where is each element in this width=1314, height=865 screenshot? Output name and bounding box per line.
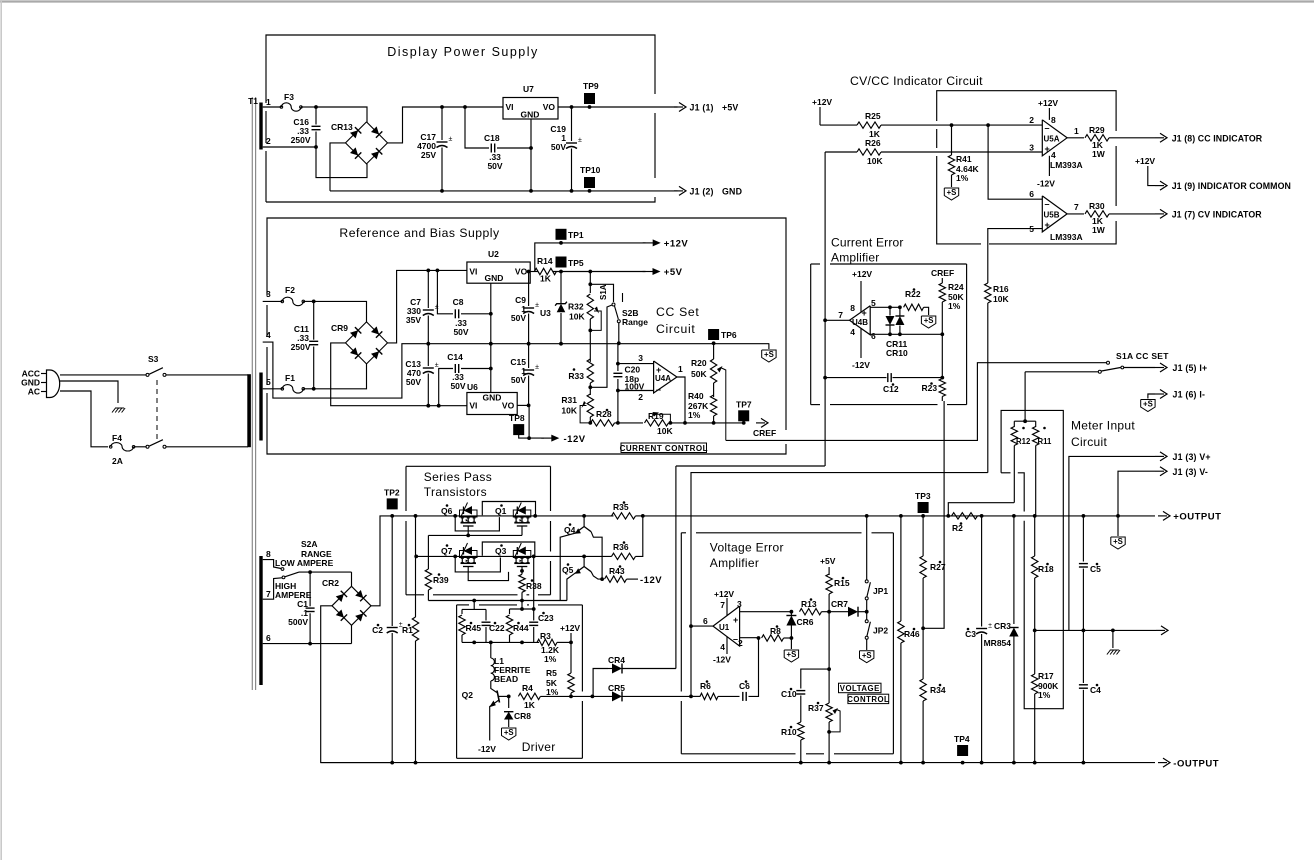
svg-text:R30: R30	[1089, 201, 1105, 211]
svg-text:R8: R8	[770, 626, 781, 636]
+OUTPUT arrow	[1158, 515, 1167, 517]
svg-text:R37: R37	[808, 703, 824, 713]
svg-text:+12V: +12V	[812, 97, 832, 107]
arrow +12V	[653, 239, 661, 246]
svg-text:R41: R41	[956, 154, 972, 164]
svg-text:Range: Range	[622, 317, 648, 327]
J1 (9) arrow	[1155, 185, 1164, 187]
svg-text:2: 2	[738, 638, 743, 648]
label CURRENT CONTROL	[621, 443, 707, 453]
svg-text:R29: R29	[1089, 125, 1105, 135]
svg-text:-OUTPUT: -OUTPUT	[1173, 758, 1219, 769]
svg-text:S3: S3	[148, 354, 159, 364]
DC+ rail display supply	[442, 106, 503, 108]
switch S1A branch	[590, 284, 613, 302]
svg-text:J1 (7) CV INDICATOR: J1 (7) CV INDICATOR	[1172, 210, 1263, 220]
wire S1A to divider	[1024, 372, 1026, 421]
capacitor C17	[440, 105, 444, 109]
svg-text:-12V: -12V	[478, 744, 496, 754]
switch S2A arm	[285, 572, 299, 577]
svg-text:-12V: -12V	[713, 655, 731, 665]
wire GND drop	[60, 381, 118, 403]
transformer T1 core	[251, 97, 253, 690]
svg-text:C14: C14	[447, 352, 463, 362]
svg-text:50V: 50V	[406, 377, 421, 387]
R2 bypass wire to meter divider	[948, 503, 1014, 516]
CV sense wire to comparator	[923, 401, 944, 628]
svg-text:250V: 250V	[291, 342, 311, 352]
test point TP10	[584, 177, 595, 188]
svg-text:R5: R5	[546, 668, 557, 678]
+S flag on V- node	[1117, 516, 1119, 536]
capacitor C9	[527, 270, 531, 274]
test point TP9	[584, 93, 595, 104]
svg-text:CR9: CR9	[331, 323, 348, 333]
resistor R45 capacitor C22 pair	[462, 608, 486, 610]
capacitor C10 branch	[801, 669, 829, 688]
svg-text:Meter Input: Meter Input	[1071, 419, 1135, 433]
svg-text:50V: 50V	[453, 327, 468, 337]
wire F3 to node	[301, 106, 316, 108]
svg-text:R33: R33	[568, 371, 584, 381]
diode CR6	[790, 612, 792, 615]
wire pin5 to bridge CR9 bottom	[314, 364, 367, 389]
wire CR2 left to -OUTPUT rail	[321, 606, 393, 763]
svg-text:+5V: +5V	[722, 103, 739, 113]
svg-text:S2A: S2A	[301, 539, 318, 549]
gate loop Q7 lower	[455, 556, 500, 572]
svg-text:10K: 10K	[569, 312, 585, 322]
svg-text:J1 (3) V-: J1 (3) V-	[1173, 467, 1209, 477]
+S flag R41	[944, 188, 958, 200]
op-amp U1	[713, 606, 740, 646]
svg-text:+S: +S	[504, 728, 514, 737]
jumper JP2	[866, 612, 868, 620]
section box Display Power Supply	[265, 151, 267, 202]
svg-text:R18: R18	[1038, 564, 1054, 574]
svg-text:3: 3	[1029, 143, 1034, 153]
DC- rail display supply	[330, 190, 678, 192]
resistor R29	[1067, 137, 1084, 139]
svg-text:C8: C8	[453, 297, 464, 307]
svg-text:500V: 500V	[288, 617, 308, 627]
wire common to CR2 top	[351, 572, 353, 586]
resistor R2	[946, 514, 950, 518]
svg-text:8: 8	[1051, 115, 1056, 125]
svg-text:R24: R24	[948, 282, 964, 292]
svg-text:7: 7	[720, 600, 725, 610]
svg-text:50V: 50V	[487, 161, 502, 171]
svg-text:TP9: TP9	[583, 81, 599, 91]
svg-text:7: 7	[838, 310, 843, 320]
J1 (8) arrow	[1155, 137, 1164, 139]
svg-text:VI: VI	[469, 267, 477, 277]
wire bridge left to DC- rail	[330, 143, 346, 191]
svg-text:LM393A: LM393A	[1050, 160, 1083, 170]
AC plug P1	[47, 370, 60, 398]
svg-text:+12V: +12V	[714, 589, 734, 599]
test point TP3	[918, 502, 929, 513]
output arrow J1 (1) +5V	[674, 106, 683, 108]
svg-text:R46: R46	[904, 629, 920, 639]
wire CR9 right to +raw line	[388, 270, 467, 343]
svg-text:BEAD: BEAD	[494, 674, 518, 684]
svg-text:7: 7	[266, 589, 271, 599]
resistor R39	[427, 535, 429, 569]
svg-text:+S: +S	[1143, 400, 1153, 409]
svg-text:R31: R31	[561, 395, 577, 405]
wire U6 GND to bus	[490, 344, 492, 369]
svg-text:C10: C10	[781, 689, 797, 699]
diode CR4 branch	[592, 669, 608, 697]
svg-text:+S: +S	[947, 188, 957, 197]
svg-text:Circuit: Circuit	[1071, 435, 1107, 449]
svg-text:CONTROL: CONTROL	[847, 695, 889, 704]
svg-text:GND: GND	[483, 393, 502, 403]
+S flag on I- line	[1141, 400, 1155, 412]
svg-text:R43: R43	[609, 566, 625, 576]
svg-text:R35: R35	[613, 502, 629, 512]
svg-text:+: +	[862, 308, 867, 318]
U1 output wire	[691, 625, 713, 627]
svg-text:Reference and Bias Supply: Reference and Bias Supply	[339, 226, 500, 240]
svg-text:GND: GND	[521, 110, 540, 120]
svg-text:1W: 1W	[1092, 225, 1106, 235]
svg-text:VI: VI	[469, 401, 477, 411]
svg-text:U4A: U4A	[655, 374, 671, 383]
svg-text:CR7: CR7	[831, 599, 848, 609]
svg-text:VO: VO	[543, 102, 556, 112]
svg-text:1%: 1%	[544, 654, 557, 664]
svg-text:R4: R4	[522, 683, 533, 693]
svg-text:R17: R17	[1038, 671, 1054, 681]
svg-text:4: 4	[1051, 150, 1056, 160]
+S flag on ground bus	[768, 343, 770, 349]
wire pin3 to bridge CR9 top	[314, 301, 367, 322]
J1 (3) V+ arrow	[1069, 456, 1155, 630]
switch S2B Range	[615, 306, 619, 319]
svg-text:3: 3	[737, 599, 742, 609]
svg-text:U5B: U5B	[1044, 211, 1060, 220]
wire pin2 to bridge bottom	[316, 147, 367, 178]
svg-text:+S: +S	[787, 650, 797, 659]
svg-text:C6: C6	[739, 681, 750, 691]
-OUTPUT arrow	[1158, 762, 1167, 764]
wire S2A common node	[299, 571, 352, 573]
svg-text:±: ±	[449, 136, 453, 143]
svg-text:-12V: -12V	[640, 575, 662, 586]
svg-text:C5: C5	[1090, 564, 1101, 574]
svg-text:J1 (5) I+: J1 (5) I+	[1173, 363, 1208, 373]
section box CV/CC Indicator	[937, 91, 1116, 131]
diode CR10	[899, 307, 901, 315]
svg-text:Amplifier: Amplifier	[710, 556, 759, 570]
label VOLTAGE CONTROL	[839, 683, 882, 693]
svg-text:–: –	[656, 385, 661, 395]
+S flag CR6	[790, 638, 792, 649]
jumper JP1	[866, 516, 868, 580]
svg-text:6: 6	[266, 633, 271, 643]
wire U4A output	[677, 377, 685, 423]
arrow +5V	[653, 268, 661, 275]
svg-text:R34: R34	[930, 685, 946, 695]
wire T1 pin4 center tap	[263, 342, 429, 398]
svg-text:Circuit: Circuit	[656, 322, 695, 336]
wire T1 pin3	[263, 300, 283, 302]
resistor R26	[825, 151, 857, 153]
-OUTPUT rail	[321, 762, 1155, 764]
svg-text:5: 5	[871, 298, 876, 308]
svg-text:6: 6	[871, 331, 876, 341]
svg-text:JP1: JP1	[873, 586, 888, 596]
wire T1 pin2	[263, 146, 316, 148]
svg-text:+: +	[1045, 144, 1050, 154]
svg-text:2: 2	[638, 392, 643, 402]
resistor R19 potentiometer	[618, 422, 643, 424]
resistor R16	[987, 245, 989, 283]
svg-text:+12V: +12V	[664, 239, 689, 250]
+raw rail through transistors	[406, 515, 614, 517]
svg-text:Q1: Q1	[495, 506, 507, 516]
+S flag JP2	[860, 651, 874, 663]
svg-text:Current Error: Current Error	[831, 236, 904, 250]
svg-text:1%: 1%	[1038, 690, 1051, 700]
svg-text:+S: +S	[862, 651, 872, 660]
svg-text:+12V: +12V	[852, 269, 872, 279]
svg-text:CREF: CREF	[753, 428, 776, 438]
svg-text:+S: +S	[1113, 537, 1123, 546]
ground stub mid line	[1111, 629, 1115, 633]
svg-text:R6: R6	[700, 681, 711, 691]
wire F4 to S3 lower	[134, 446, 147, 448]
svg-text:TP6: TP6	[721, 330, 737, 340]
svg-text:+12V: +12V	[1135, 156, 1155, 166]
svg-text:S1A: S1A	[599, 284, 608, 300]
capacitor C13	[426, 404, 430, 408]
svg-text:2: 2	[266, 136, 271, 146]
svg-text:TP7: TP7	[736, 400, 752, 410]
svg-text:J1 (1): J1 (1)	[690, 103, 714, 113]
section box Current Error Amplifier	[811, 263, 820, 265]
svg-text:TP8: TP8	[509, 413, 525, 423]
U4B pin5 wire	[870, 306, 900, 308]
svg-text:C22: C22	[489, 623, 505, 633]
resistor R38	[519, 574, 525, 592]
resistor R41	[951, 125, 953, 155]
svg-text:R10: R10	[781, 727, 797, 737]
svg-text:R16: R16	[993, 284, 1009, 294]
section box Driver	[457, 604, 469, 606]
svg-text:JP2: JP2	[873, 626, 888, 636]
section box Voltage Error Amplifier	[681, 532, 686, 534]
gate loop Q6-Q1 upper	[482, 502, 535, 516]
capacitor C15	[527, 404, 531, 408]
line to CREF arrow	[685, 422, 744, 424]
U4B -12V pin 4	[860, 328, 862, 358]
svg-text:+12V: +12V	[1038, 98, 1058, 108]
wire T1 pin5	[263, 388, 283, 390]
CREF wire to switch	[726, 363, 1107, 441]
stem Q3 to R38	[521, 567, 523, 575]
+S flag CR8	[502, 728, 516, 740]
capacitor C14	[437, 404, 441, 408]
svg-text:C18: C18	[484, 133, 500, 143]
svg-text:R13: R13	[801, 599, 817, 609]
CREF arrow	[756, 422, 765, 424]
svg-text:U1: U1	[719, 623, 730, 632]
svg-text:VO: VO	[502, 401, 515, 411]
wire T1 pin1	[263, 106, 282, 108]
svg-text:–: –	[1045, 123, 1050, 133]
svg-text:Q3: Q3	[495, 546, 507, 556]
R26 net vertical	[824, 152, 826, 466]
wire U2 VO to +12V branch	[530, 271, 538, 273]
svg-text:R32: R32	[568, 302, 584, 312]
svg-text:TP1: TP1	[568, 230, 584, 240]
ground bus mid	[428, 343, 769, 345]
svg-text:10K: 10K	[561, 406, 577, 416]
svg-text:R39: R39	[433, 575, 449, 585]
svg-text:50K: 50K	[691, 369, 707, 379]
svg-text:±: ±	[535, 302, 539, 309]
wire U7 VO out	[558, 106, 678, 108]
svg-text:S1A CC SET: S1A CC SET	[1116, 351, 1169, 361]
svg-text:10K: 10K	[657, 426, 673, 436]
ground	[112, 408, 116, 413]
svg-text:CR10: CR10	[886, 348, 908, 358]
svg-text:Q2: Q2	[462, 690, 474, 700]
svg-text:C4: C4	[1090, 685, 1101, 695]
svg-text:50V: 50V	[511, 375, 526, 385]
driver output wire	[571, 695, 592, 697]
svg-text:TP10: TP10	[580, 165, 601, 175]
svg-text:10K: 10K	[993, 294, 1009, 304]
resistor R44 capacitor C23 pair	[510, 608, 534, 610]
test point TP8	[513, 424, 524, 435]
svg-text:R15: R15	[834, 578, 850, 588]
gate bottom bus	[462, 641, 539, 643]
svg-text:±: ±	[535, 364, 539, 371]
svg-text:±: ±	[988, 623, 992, 630]
U5A +12V pin 8	[1048, 108, 1050, 120]
test point TP5	[556, 257, 567, 268]
svg-text:J1 (3) V+: J1 (3) V+	[1173, 452, 1211, 462]
resistor R46	[899, 514, 903, 518]
svg-text:-12V: -12V	[564, 434, 586, 445]
svg-text:R36: R36	[613, 542, 629, 552]
svg-text:GND: GND	[485, 273, 504, 283]
svg-text:+S: +S	[924, 316, 934, 325]
svg-text:CR13: CR13	[331, 122, 353, 132]
svg-text:8: 8	[850, 303, 855, 313]
svg-text:CR2: CR2	[322, 578, 339, 588]
J1 (7) arrow	[1155, 213, 1164, 215]
wire U4B net riser to CR4	[675, 466, 677, 669]
mid sense line	[1035, 629, 1156, 631]
section box Meter Input Circuit	[1001, 410, 1063, 708]
capacitor C3	[981, 516, 983, 627]
wire AC to F4	[60, 391, 108, 447]
svg-text:CV/CC Indicator Circuit: CV/CC Indicator Circuit	[850, 74, 983, 88]
resistors R12 R11 parallel	[1014, 420, 1035, 422]
wire S3 to T1 primary top	[166, 374, 248, 376]
svg-text:R11: R11	[1038, 437, 1053, 446]
svg-text:J1 (9) INDICATOR COMMON: J1 (9) INDICATOR COMMON	[1172, 181, 1291, 191]
resistor R37 potentiometer	[828, 669, 830, 703]
svg-text:U3: U3	[540, 308, 551, 318]
U4B output wire	[825, 319, 849, 321]
svg-text:R12: R12	[1016, 437, 1031, 446]
resistor R27	[922, 516, 924, 556]
wire CC net cross link	[676, 465, 825, 467]
svg-text:1K: 1K	[540, 274, 552, 284]
svg-text:TP4: TP4	[954, 734, 970, 744]
svg-text:TP3: TP3	[915, 491, 931, 501]
svg-text:1%: 1%	[956, 173, 969, 183]
svg-text:1: 1	[266, 97, 271, 107]
wire U7 GND	[530, 119, 532, 148]
svg-text:R40: R40	[688, 391, 704, 401]
+S flag R22	[921, 316, 935, 328]
svg-text:-12V: -12V	[852, 360, 870, 370]
section box Reference and Bias Supply	[267, 218, 786, 430]
svg-text:Transistors: Transistors	[424, 485, 487, 499]
svg-text:Q6: Q6	[441, 506, 453, 516]
resistor R30	[1067, 213, 1084, 215]
wire R13 node to R37	[828, 612, 830, 669]
U4B +12V pin 8	[860, 281, 862, 312]
svg-text:GND: GND	[722, 187, 742, 197]
svg-text:U7: U7	[523, 84, 534, 94]
wire rail to CR2 bottom	[351, 625, 353, 643]
capacitor C18	[463, 105, 467, 109]
svg-text:+5V: +5V	[664, 267, 683, 278]
capacitor C12	[825, 377, 886, 379]
svg-text:+OUTPUT: +OUTPUT	[1173, 512, 1221, 523]
resistor R31 potentiometer	[589, 387, 591, 395]
capacitor C19	[570, 105, 574, 109]
R23 CV sense column	[941, 334, 943, 377]
svg-text:TP2: TP2	[384, 488, 400, 498]
wire CR2 right to +raw rail	[371, 516, 406, 606]
svg-text:C20: C20	[625, 365, 641, 375]
svg-text:10K: 10K	[867, 156, 883, 166]
svg-text:VI: VI	[506, 102, 514, 112]
svg-text:R27: R27	[930, 562, 946, 572]
svg-text:R25: R25	[865, 111, 881, 121]
svg-text:F2: F2	[285, 285, 295, 295]
svg-text:50V: 50V	[511, 313, 526, 323]
svg-text:R1: R1	[402, 625, 413, 635]
svg-text:1%: 1%	[546, 687, 559, 697]
svg-text:CR6: CR6	[797, 617, 814, 627]
svg-text:7: 7	[1074, 202, 1079, 212]
J1 (6) I- arrow	[1148, 394, 1155, 399]
svg-text:R26: R26	[865, 138, 881, 148]
svg-text:1%: 1%	[688, 410, 701, 420]
svg-text:TP5: TP5	[568, 258, 584, 268]
transformer T1 secondary winding 6-7-8	[259, 556, 262, 685]
svg-text:–: –	[1045, 199, 1050, 209]
gate drive wire	[428, 600, 567, 602]
svg-text:J1 (8) CC INDICATOR: J1 (8) CC INDICATOR	[1172, 133, 1263, 143]
svg-text:Q5: Q5	[562, 565, 574, 575]
wire S3 to T1 primary bottom	[166, 446, 248, 448]
svg-text:CREF: CREF	[931, 268, 954, 278]
svg-text:F1: F1	[285, 373, 295, 383]
svg-text:2: 2	[1029, 115, 1034, 125]
svg-text:U4B: U4B	[852, 318, 868, 327]
